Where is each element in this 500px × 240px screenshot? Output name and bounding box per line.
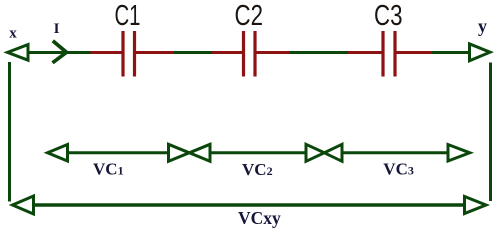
svg-text:y: y bbox=[478, 16, 487, 36]
svg-text:C1: C1 bbox=[115, 0, 141, 32]
svg-text:C3: C3 bbox=[374, 0, 403, 32]
svg-text:VCxy: VCxy bbox=[238, 208, 281, 228]
svg-text:C2: C2 bbox=[235, 0, 264, 32]
svg-text:x: x bbox=[9, 26, 17, 42]
svg-text:I: I bbox=[54, 21, 60, 37]
